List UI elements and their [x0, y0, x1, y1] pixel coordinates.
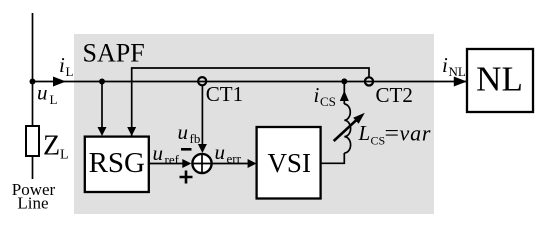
svg-text:L: L — [50, 92, 58, 107]
SAPF shaded region — [74, 34, 434, 214]
wire: CT2 feedback line top — [132, 68, 369, 136]
CT2 sensor circle — [365, 77, 373, 85]
wire: power line vertical upper — [32, 13, 34, 126]
node: source junction — [30, 79, 36, 85]
wire: power line vertical lower — [32, 156, 34, 179]
summing junction circle — [192, 154, 211, 173]
svg-text:L: L — [358, 121, 371, 145]
svg-text:Z: Z — [43, 131, 60, 162]
node: coil junction on bus — [341, 78, 347, 84]
svg-text:Line: Line — [17, 194, 48, 213]
svg-text:u: u — [153, 141, 164, 165]
summing junction cross — [192, 154, 211, 173]
arrow i_L flow — [53, 77, 66, 87]
svg-text:CT1: CT1 — [206, 82, 243, 106]
CT1 sensor circle — [198, 77, 206, 85]
wire: CT1 to summing node — [201, 86, 203, 145]
svg-text:=: = — [385, 120, 400, 145]
wire: summing node to VSI — [212, 163, 248, 165]
RSG box — [85, 137, 149, 192]
arrow i_CS flow up — [340, 91, 349, 102]
arrow into RSG input 2 — [127, 127, 136, 136]
svg-text:u: u — [37, 81, 48, 105]
svg-text:fb: fb — [190, 131, 201, 146]
svg-text:L: L — [66, 64, 74, 79]
svg-text:RSG: RSG — [89, 147, 145, 179]
svg-text:CT2: CT2 — [376, 83, 413, 107]
svg-text:i: i — [314, 83, 320, 107]
svg-text:CS: CS — [371, 134, 386, 148]
svg-text:NL: NL — [449, 64, 466, 79]
svg-text:i: i — [59, 53, 65, 77]
impedance Z_L box — [26, 126, 39, 156]
svg-text:CS: CS — [320, 94, 336, 109]
svg-text:u: u — [215, 140, 226, 164]
arrow into summing node from top — [198, 144, 207, 153]
svg-text:i: i — [442, 53, 448, 77]
svg-text:NL: NL — [476, 60, 523, 99]
wire: junction to RSG input — [101, 82, 103, 129]
wire: main horizontal bus — [33, 81, 467, 83]
wire: coil to bus — [343, 82, 345, 105]
svg-text:err: err — [227, 151, 242, 166]
VSI box — [257, 127, 321, 199]
inductor L_CS coil — [344, 104, 350, 153]
wire: RSG to summing node — [149, 163, 183, 165]
node: RSG sense junction — [99, 79, 105, 85]
NL box — [467, 49, 533, 112]
arrow into VSI — [248, 159, 257, 168]
variable arrow through coil — [334, 120, 357, 142]
svg-text:SAPF: SAPF — [83, 39, 145, 68]
wire: VSI output to coil — [321, 153, 345, 163]
svg-text:ref: ref — [165, 152, 180, 167]
svg-text:L: L — [60, 148, 69, 163]
plus sign — [180, 171, 193, 184]
arrow into NL — [454, 77, 467, 87]
arrow into RSG input 1 — [98, 127, 107, 136]
minus sign — [181, 148, 192, 151]
arrow into summing node from left — [182, 159, 191, 168]
svg-text:var: var — [400, 121, 432, 146]
svg-text:VSI: VSI — [267, 148, 311, 178]
svg-text:u: u — [178, 120, 189, 144]
